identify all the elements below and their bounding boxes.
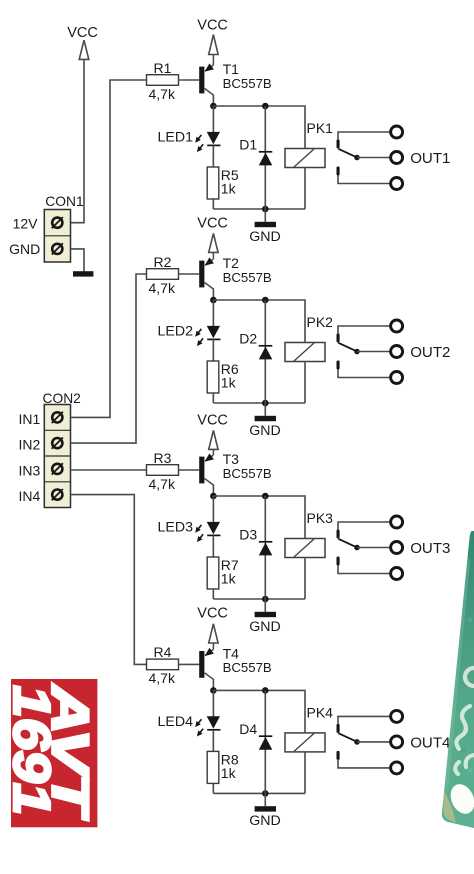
power VCC (T1 emitter) bbox=[197, 17, 228, 65]
label R1 value 4,7k bbox=[149, 86, 176, 102]
label T2 bbox=[223, 255, 240, 271]
wire bottom rail channel 2 bbox=[213, 402, 305, 404]
svg-text:PK2: PK2 bbox=[307, 314, 334, 330]
svg-text:GND: GND bbox=[249, 229, 281, 245]
node D1 top junction bbox=[262, 103, 269, 110]
label D3 bbox=[239, 527, 257, 543]
wire relay PK3 to bottom rail bbox=[304, 558, 306, 600]
node D4 top junction bbox=[262, 687, 269, 694]
svg-text:T2: T2 bbox=[223, 255, 240, 271]
wire rail to LED2 bbox=[212, 300, 214, 326]
wire bottom rail channel 4 bbox=[213, 792, 305, 794]
relay coil PK4 bbox=[285, 733, 325, 752]
wire top rail to relay PK1 bbox=[213, 106, 305, 149]
label PK2 bbox=[307, 314, 334, 330]
svg-text:LED1: LED1 bbox=[158, 130, 194, 146]
svg-text:GND: GND bbox=[249, 619, 281, 635]
svg-text:OUT3: OUT3 bbox=[410, 540, 450, 557]
relay coil PK2 bbox=[285, 343, 325, 362]
svg-text:1k: 1k bbox=[221, 375, 237, 391]
svg-text:CON1: CON1 bbox=[45, 194, 83, 209]
wire 12V to VCC arrow bbox=[71, 59, 85, 222]
resistor R2 bbox=[147, 269, 179, 280]
wire bottom rail channel 3 bbox=[213, 598, 305, 600]
wire D3 branch bbox=[264, 496, 266, 599]
diode D2 bbox=[259, 346, 273, 360]
wire R4 to T4 base bbox=[179, 663, 200, 665]
wire bottom rail channel 1 bbox=[213, 208, 305, 210]
diode D1 bbox=[259, 152, 273, 166]
label D1 bbox=[239, 137, 257, 153]
wire common to OUT2 terminal bbox=[357, 351, 390, 353]
contact arm PK1 bbox=[338, 149, 357, 158]
power VCC (T4 emitter) bbox=[197, 606, 228, 650]
contact NO stub PK2 bbox=[337, 361, 340, 370]
wire common to OUT1 terminal bbox=[357, 157, 390, 159]
LED LED2 bbox=[195, 326, 220, 346]
svg-text:1k: 1k bbox=[221, 765, 237, 781]
svg-text:GND: GND bbox=[249, 813, 281, 829]
wire R8 to bottom rail bbox=[212, 783, 214, 793]
svg-text:D1: D1 bbox=[239, 137, 257, 153]
contact NC stub PK1 bbox=[337, 140, 340, 149]
label IN3 bbox=[19, 462, 41, 478]
svg-text:IN3: IN3 bbox=[19, 462, 41, 478]
resistor R8 bbox=[207, 751, 219, 783]
contact NO stub PK1 bbox=[337, 167, 340, 176]
label R1 bbox=[154, 60, 172, 76]
ground (channel 3) bbox=[255, 612, 276, 617]
svg-text:PK3: PK3 bbox=[307, 510, 334, 526]
diode D4 bbox=[259, 736, 273, 750]
svg-text:PK4: PK4 bbox=[307, 704, 334, 720]
wire NC contact to terminal (PK4) bbox=[338, 716, 390, 724]
svg-text:R4: R4 bbox=[154, 644, 172, 660]
svg-text:D4: D4 bbox=[239, 721, 257, 737]
label T1 bbox=[223, 61, 240, 77]
wire NO contact to terminal (PK1) bbox=[338, 176, 390, 184]
transistor T2 BC557B (PNP) bbox=[199, 257, 214, 289]
CON2 pin 4 screw terminal (IN4) bbox=[52, 489, 63, 500]
label OUT3 bbox=[410, 540, 450, 557]
relay coil PK3 bbox=[285, 539, 325, 558]
resistor R3 bbox=[147, 465, 179, 476]
terminal common OUT4 bbox=[391, 736, 403, 748]
wire D4 branch bbox=[264, 690, 266, 793]
resistor R7 bbox=[207, 557, 219, 589]
terminal common OUT2 bbox=[391, 346, 403, 358]
wire R1 to T1 base bbox=[179, 79, 200, 81]
label R3 bbox=[154, 450, 172, 466]
resistor R6 bbox=[207, 361, 219, 393]
ground (channel 2) bbox=[255, 416, 276, 421]
label R6 value 1k bbox=[221, 375, 237, 391]
relay coil PK1 bbox=[285, 149, 325, 168]
label GND (channel 3) bbox=[249, 619, 281, 635]
wire R7 to bottom rail bbox=[212, 589, 214, 599]
label LED4 bbox=[158, 714, 194, 730]
LED LED1 bbox=[195, 132, 220, 152]
LED LED3 bbox=[195, 522, 220, 542]
label R6 bbox=[221, 361, 239, 377]
svg-text:GND: GND bbox=[249, 423, 281, 439]
wire R6 to bottom rail bbox=[212, 393, 214, 403]
wire to ground channel 2 bbox=[264, 403, 266, 416]
wire top rail to relay PK3 bbox=[213, 496, 305, 539]
contact arm PK3 bbox=[338, 539, 357, 548]
contact NC stub PK3 bbox=[337, 530, 340, 539]
wire LED3 to R7 bbox=[212, 535, 214, 557]
node GND junction channel 2 bbox=[262, 400, 269, 407]
connector CON2 label bbox=[43, 391, 81, 406]
node collector T4 junction bbox=[210, 687, 217, 694]
node D3 top junction bbox=[262, 493, 269, 500]
wire rail to LED4 bbox=[212, 690, 214, 716]
svg-text:IN4: IN4 bbox=[19, 488, 41, 504]
wire NC contact to terminal (PK2) bbox=[338, 326, 390, 334]
wire relay PK1 to bottom rail bbox=[304, 168, 306, 210]
label 12V bbox=[13, 215, 39, 231]
wire NO contact to terminal (PK2) bbox=[338, 370, 390, 378]
wire to ground channel 3 bbox=[264, 599, 266, 612]
wire NO contact to terminal (PK3) bbox=[338, 566, 390, 574]
power VCC (main, from CON1) bbox=[67, 25, 98, 60]
wire IN4 to R4 bbox=[71, 495, 148, 665]
label PK4 bbox=[307, 704, 334, 720]
svg-text:LED2: LED2 bbox=[158, 324, 194, 340]
svg-text:LED4: LED4 bbox=[158, 714, 194, 730]
terminal NO PK4 bbox=[391, 762, 403, 774]
CON2 pin 3 screw terminal (IN3) bbox=[52, 463, 63, 474]
label R2 value 4,7k bbox=[149, 280, 176, 296]
svg-text:4,7k: 4,7k bbox=[149, 670, 176, 686]
label IN4 bbox=[19, 488, 41, 504]
terminal NC PK2 bbox=[391, 320, 403, 332]
resistor R1 bbox=[147, 75, 179, 86]
wire rail to LED3 bbox=[212, 496, 214, 522]
ground (CON1) bbox=[73, 271, 93, 276]
svg-text:VCC: VCC bbox=[197, 216, 228, 232]
svg-text:D2: D2 bbox=[239, 331, 257, 347]
wire T1 collector to rail bbox=[212, 95, 214, 107]
label T1 type BC557B bbox=[223, 76, 272, 91]
svg-text:OUT1: OUT1 bbox=[410, 150, 450, 167]
PCB fragment (green board corner, bottom right) bbox=[442, 531, 474, 828]
svg-text:BC557B: BC557B bbox=[223, 76, 272, 91]
wire LED1 to R5 bbox=[212, 145, 214, 167]
transistor T4 BC557B (PNP) bbox=[199, 648, 214, 680]
svg-text:BC557B: BC557B bbox=[223, 466, 272, 481]
svg-text:GND: GND bbox=[9, 241, 40, 257]
svg-text:VCC: VCC bbox=[197, 17, 228, 33]
wire to ground channel 4 bbox=[264, 793, 266, 806]
node GND junction channel 3 bbox=[262, 596, 269, 603]
wire D1 branch bbox=[264, 106, 266, 209]
label GND (channel 4) bbox=[249, 813, 281, 829]
wire IN2 to R2 bbox=[71, 274, 147, 443]
svg-text:1k: 1k bbox=[221, 571, 237, 587]
label R5 value 1k bbox=[221, 181, 237, 197]
label T3 bbox=[223, 451, 240, 467]
connector CON2 bbox=[44, 405, 70, 508]
label PK3 bbox=[307, 510, 334, 526]
wire NC contact to terminal (PK3) bbox=[338, 522, 390, 530]
contact NC stub PK4 bbox=[337, 724, 340, 733]
wire D2 branch bbox=[264, 300, 266, 403]
wire common to OUT4 terminal bbox=[357, 741, 390, 743]
svg-text:T1: T1 bbox=[223, 61, 240, 77]
label D4 bbox=[239, 721, 257, 737]
power VCC (T2 emitter) bbox=[197, 216, 228, 259]
resistor R5 bbox=[207, 167, 219, 199]
svg-text:OUT2: OUT2 bbox=[410, 344, 450, 361]
AVT 1691 logo bbox=[2, 679, 99, 827]
label IN2 bbox=[19, 437, 41, 453]
label D2 bbox=[239, 331, 257, 347]
contact NO stub PK3 bbox=[337, 557, 340, 566]
label LED3 bbox=[158, 520, 194, 536]
terminal common OUT3 bbox=[391, 542, 403, 554]
node D2 top junction bbox=[262, 297, 269, 304]
label R8 value 1k bbox=[221, 765, 237, 781]
wire NC contact to terminal (PK1) bbox=[338, 132, 390, 140]
wire to ground channel 1 bbox=[264, 209, 266, 222]
label R7 value 1k bbox=[221, 571, 237, 587]
label T4 bbox=[223, 645, 240, 661]
transistor T1 BC557B (PNP) bbox=[199, 63, 214, 95]
svg-text:LED3: LED3 bbox=[158, 520, 194, 536]
wire LED2 to R6 bbox=[212, 339, 214, 361]
svg-text:T4: T4 bbox=[223, 645, 240, 661]
connector CON1 bbox=[44, 210, 70, 263]
label OUT2 bbox=[410, 344, 450, 361]
svg-text:IN1: IN1 bbox=[19, 411, 41, 427]
wire T3 collector to rail bbox=[212, 485, 214, 497]
contact NO stub PK4 bbox=[337, 751, 340, 760]
label R2 bbox=[154, 254, 172, 270]
svg-text:4,7k: 4,7k bbox=[149, 476, 176, 492]
CON2 pin 1 screw terminal (IN1) bbox=[52, 412, 63, 423]
label R4 bbox=[154, 644, 172, 660]
contact NC stub PK2 bbox=[337, 334, 340, 343]
node collector T3 junction bbox=[210, 493, 217, 500]
svg-text:PK1: PK1 bbox=[307, 120, 334, 136]
CON1 pin 1 screw terminal (12V) bbox=[52, 217, 63, 228]
svg-text:1691: 1691 bbox=[2, 685, 60, 815]
node collector T2 junction bbox=[210, 297, 217, 304]
svg-text:1k: 1k bbox=[221, 181, 237, 197]
wire rail to LED1 bbox=[212, 106, 214, 132]
svg-text:D3: D3 bbox=[239, 527, 257, 543]
svg-text:BC557B: BC557B bbox=[223, 660, 272, 675]
wire relay PK2 to bottom rail bbox=[304, 362, 306, 404]
wire IN3 to R3 bbox=[71, 469, 149, 471]
svg-text:R1: R1 bbox=[154, 60, 172, 76]
svg-text:R2: R2 bbox=[154, 254, 172, 270]
wire CON1 GND to ground bbox=[71, 249, 85, 271]
terminal common OUT1 bbox=[391, 152, 403, 164]
label T2 type BC557B bbox=[223, 270, 272, 285]
node contact pivot PK1 bbox=[354, 155, 360, 161]
wire T4 collector to rail bbox=[212, 679, 214, 691]
terminal NO PK3 bbox=[391, 568, 403, 580]
svg-text:VCC: VCC bbox=[67, 25, 98, 41]
svg-text:VCC: VCC bbox=[197, 412, 228, 428]
svg-text:4,7k: 4,7k bbox=[149, 86, 176, 102]
svg-text:IN2: IN2 bbox=[19, 437, 41, 453]
svg-text:R3: R3 bbox=[154, 450, 172, 466]
label IN1 bbox=[19, 411, 41, 427]
power VCC (T3 emitter) bbox=[197, 412, 228, 455]
diode D3 bbox=[259, 542, 273, 556]
wire LED4 to R8 bbox=[212, 730, 214, 752]
transistor T3 BC557B (PNP) bbox=[199, 453, 214, 485]
label LED2 bbox=[158, 324, 194, 340]
label R4 value 4,7k bbox=[149, 670, 176, 686]
label GND (channel 1) bbox=[249, 229, 281, 245]
contact arm PK2 bbox=[338, 343, 357, 352]
terminal NC PK1 bbox=[391, 126, 403, 138]
node GND junction channel 1 bbox=[262, 206, 269, 213]
node contact pivot PK4 bbox=[354, 739, 360, 745]
svg-text:OUT4: OUT4 bbox=[410, 735, 450, 752]
LED LED4 bbox=[195, 716, 220, 736]
resistor R4 bbox=[147, 659, 179, 670]
node GND junction channel 4 bbox=[262, 790, 269, 797]
wire R5 to bottom rail bbox=[212, 199, 214, 209]
terminal NC PK3 bbox=[391, 516, 403, 528]
wire top rail to relay PK2 bbox=[213, 300, 305, 343]
label T4 type BC557B bbox=[223, 660, 272, 675]
label OUT4 bbox=[410, 735, 450, 752]
label R7 bbox=[221, 557, 239, 573]
label LED1 bbox=[158, 130, 194, 146]
label R5 bbox=[221, 167, 239, 183]
CON1 pin 2 screw terminal (GND) bbox=[52, 243, 63, 254]
CON2 pin 2 screw terminal (IN2) bbox=[52, 438, 63, 449]
wire common to OUT3 terminal bbox=[357, 547, 390, 549]
ground (channel 4) bbox=[255, 806, 276, 811]
label OUT1 bbox=[410, 150, 450, 167]
label R3 value 4,7k bbox=[149, 476, 176, 492]
terminal NC PK4 bbox=[391, 710, 403, 722]
wire top rail to relay PK4 bbox=[213, 690, 305, 733]
wire T2 collector to rail bbox=[212, 289, 214, 301]
contact arm PK4 bbox=[338, 733, 357, 742]
node contact pivot PK2 bbox=[354, 349, 360, 355]
svg-text:BC557B: BC557B bbox=[223, 270, 272, 285]
wire IN1 to R1 bbox=[71, 80, 147, 417]
svg-text:4,7k: 4,7k bbox=[149, 280, 176, 296]
svg-text:VCC: VCC bbox=[197, 606, 228, 622]
label T3 type BC557B bbox=[223, 466, 272, 481]
wire NO contact to terminal (PK4) bbox=[338, 760, 390, 768]
svg-text:T3: T3 bbox=[223, 451, 240, 467]
wire R3 to T3 base bbox=[179, 469, 200, 471]
node contact pivot PK3 bbox=[354, 545, 360, 551]
svg-text:12V: 12V bbox=[13, 215, 39, 231]
label GND (channel 2) bbox=[249, 423, 281, 439]
label R8 bbox=[221, 751, 239, 767]
wire relay PK4 to bottom rail bbox=[304, 752, 306, 794]
node collector T1 junction bbox=[210, 103, 217, 110]
label GND (CON1) bbox=[9, 241, 40, 257]
terminal NO PK1 bbox=[391, 178, 403, 190]
connector CON1 label bbox=[45, 194, 83, 209]
ground (channel 1) bbox=[255, 222, 276, 227]
wire R2 to T2 base bbox=[179, 273, 200, 275]
terminal NO PK2 bbox=[391, 372, 403, 384]
label PK1 bbox=[307, 120, 334, 136]
